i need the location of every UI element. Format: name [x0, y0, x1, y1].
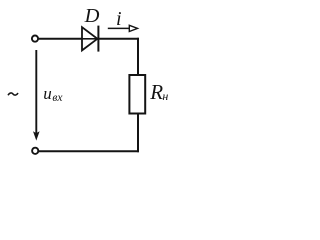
wire: top terminal to diode anode — [39, 38, 82, 40]
diode D: cathode bar — [97, 26, 99, 52]
diode D: anode triangle — [82, 27, 97, 50]
current arrow i — [108, 25, 138, 31]
wire: diode cathode to top-right corner — [98, 38, 139, 40]
input terminal (top) — [32, 36, 38, 42]
wire: through diode — [82, 38, 97, 40]
svg-text:u: u — [43, 84, 52, 103]
svg-text:вх: вх — [52, 92, 63, 104]
resistor Rn body — [129, 75, 145, 114]
svg-text:D: D — [84, 5, 100, 27]
wire: bottom horizontal — [39, 150, 139, 152]
svg-text:R: R — [149, 80, 163, 104]
voltage arrow u_vx (downward) — [33, 50, 40, 141]
svg-text:н: н — [162, 89, 168, 103]
input terminal (bottom) — [32, 148, 38, 154]
AC tilde symbol — [8, 93, 18, 95]
svg-text:i: i — [116, 8, 122, 30]
wire: resistor bottom to bottom-right corner — [137, 114, 139, 153]
wire: right vertical, corner to resistor top — [137, 38, 139, 75]
